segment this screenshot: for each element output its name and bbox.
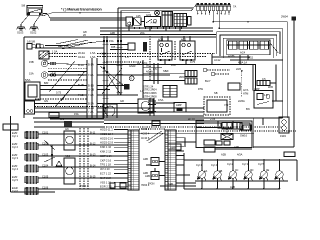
svg-text:04-0A: 04-0A (78, 55, 85, 59)
svg-text:1.5: 1.5 (264, 93, 268, 97)
svg-text:P/W: P/W (198, 87, 203, 91)
svg-text:B-11: B-11 (90, 131, 96, 135)
svg-text:AMP: AMP (170, 146, 176, 150)
svg-text:4/33: 4/33 (158, 38, 164, 42)
svg-text:Y/R: Y/R (224, 103, 228, 107)
svg-text:G-1B: G-1B (88, 88, 94, 92)
svg-text:0.75: 0.75 (190, 60, 196, 64)
svg-text:15A: 15A (74, 112, 79, 116)
svg-text:1.5A: 1.5A (90, 51, 96, 55)
svg-text:1.0: 1.0 (52, 71, 56, 75)
svg-text:10A: 10A (171, 63, 176, 67)
svg-text:1 5A: 1 5A (52, 50, 58, 54)
svg-text:A2B: A2B (168, 182, 173, 186)
svg-text:1.5A: 1.5A (90, 55, 96, 59)
svg-text:Cyl 3: Cyl 3 (12, 156, 18, 160)
svg-text:BN: BN (246, 107, 250, 111)
svg-text:2-06: 2-06 (210, 117, 216, 121)
svg-text:Cyl 4: Cyl 4 (12, 167, 18, 171)
svg-text:5/5A: 5/5A (25, 78, 31, 82)
svg-text:1.0: 1.0 (140, 89, 144, 93)
svg-text:AC10: AC10 (188, 117, 195, 121)
svg-text:GN: GN (44, 99, 48, 103)
svg-text:AC12: AC12 (214, 58, 221, 62)
svg-text:1/26: 1/26 (196, 125, 202, 129)
svg-text:Cyl 5: Cyl 5 (12, 178, 18, 182)
svg-text:B-1A: B-1A (88, 63, 94, 67)
svg-text:2/26A: 2/26A (238, 99, 245, 103)
svg-text:1/8 5/8: 1/8 5/8 (27, 40, 35, 44)
svg-text:C101: C101 (42, 131, 49, 135)
svg-text:AC86: AC86 (228, 54, 235, 58)
svg-text:15A: 15A (109, 39, 114, 43)
svg-text:C105: C105 (42, 175, 49, 179)
svg-text:1903: 1903 (280, 134, 286, 138)
svg-text:C104: C104 (42, 164, 49, 168)
svg-text:Cyl 3: Cyl 3 (242, 162, 248, 166)
svg-text:5/8: 5/8 (22, 4, 26, 8)
svg-text:4/3A: 4/3A (237, 153, 243, 157)
svg-text:4A: 4A (204, 169, 207, 173)
svg-text:7-1B: 7-1B (78, 93, 84, 97)
svg-text:B-1A: B-1A (78, 63, 84, 67)
svg-text:SB: SB (214, 91, 218, 95)
svg-text:C 2: C 2 (60, 117, 65, 121)
svg-text:HO2S-22 8: HO2S-22 8 (100, 141, 114, 145)
svg-text:20A: 20A (140, 31, 145, 35)
svg-text:4/33: 4/33 (146, 13, 152, 17)
svg-text:4/16A: 4/16A (146, 70, 153, 74)
svg-text:GR: GR (120, 99, 124, 103)
svg-text:CKP 2 16: CKP 2 16 (100, 158, 112, 162)
svg-text:4C: 4C (235, 168, 238, 172)
svg-text:SW16: SW16 (240, 134, 248, 138)
svg-text:0.75: 0.75 (56, 91, 62, 95)
svg-text:Cyl 6: Cyl 6 (12, 189, 18, 193)
svg-text:G103: G103 (17, 31, 24, 35)
svg-text:CMP 1 14: CMP 1 14 (100, 154, 112, 158)
svg-text:7-1A: 7-1A (88, 73, 94, 77)
svg-text:4/32: 4/32 (181, 38, 187, 42)
svg-text:B-15: B-15 (90, 175, 96, 179)
svg-text:STR4 2R08: STR4 2R08 (143, 94, 157, 98)
svg-text:TPS 1 18: TPS 1 18 (100, 163, 111, 167)
svg-text:A2B: A2B (230, 185, 235, 189)
svg-text:B-1B: B-1B (88, 84, 94, 88)
svg-text:ATM: ATM (243, 92, 248, 96)
svg-text:4C10 6: 4C10 6 (141, 136, 150, 140)
svg-text:R/B: R/B (111, 45, 116, 49)
svg-text:Cyl 1: Cyl 1 (12, 134, 18, 138)
svg-text:7-1B: 7-1B (88, 93, 94, 97)
svg-text:4/7A: 4/7A (243, 88, 249, 92)
svg-text:4E: 4E (266, 168, 269, 172)
svg-text:A4B: A4B (143, 171, 148, 175)
svg-text:2R04: 2R04 (179, 75, 186, 79)
svg-text:4/10: 4/10 (65, 154, 71, 158)
svg-text:HO2S-11 2: HO2S-11 2 (100, 128, 113, 132)
svg-text:15A: 15A (64, 44, 69, 48)
svg-text:Cyl 1: Cyl 1 (196, 163, 202, 167)
svg-text:AC4: AC4 (240, 51, 246, 55)
svg-text:AMP: AMP (176, 103, 182, 107)
svg-text:0.5A: 0.5A (158, 98, 164, 102)
svg-text:Cyl 2: Cyl 2 (12, 145, 18, 149)
svg-text:C103: C103 (42, 153, 49, 157)
svg-text:KNK 1 10: KNK 1 10 (100, 145, 112, 149)
svg-text:A 4/1: A 4/1 (151, 21, 157, 25)
svg-text:4/52: 4/52 (248, 56, 254, 60)
svg-text:ECT 1 22: ECT 1 22 (100, 172, 111, 176)
svg-text:4B: 4B (219, 169, 222, 173)
svg-text:B-12: B-12 (90, 142, 96, 146)
svg-text:15B: 15B (29, 60, 34, 64)
svg-text:MAF 2 24: MAF 2 24 (100, 176, 112, 180)
svg-text:G102: G102 (30, 31, 37, 35)
svg-text:GN/R: GN/R (129, 64, 136, 68)
svg-text:KNK 2 12: KNK 2 12 (100, 150, 112, 154)
svg-text:STR2 2R04: STR2 2R04 (143, 88, 157, 92)
svg-text:7A: 7A (233, 5, 236, 9)
svg-text:A22: A22 (101, 52, 106, 56)
svg-text:IAT 2 20: IAT 2 20 (100, 167, 110, 171)
svg-text:Cyl 4: Cyl 4 (211, 163, 217, 167)
svg-text:A2B: A2B (234, 145, 239, 149)
svg-text:B-13: B-13 (90, 153, 96, 157)
svg-text:K: K (131, 77, 133, 81)
svg-text:20-0A: 20-0A (78, 51, 85, 55)
svg-text:B-1B: B-1B (78, 83, 84, 87)
svg-text:2/26: 2/26 (236, 67, 242, 71)
svg-text:4D: 4D (250, 168, 253, 172)
svg-text:HO2S-12 4: HO2S-12 4 (100, 132, 114, 136)
svg-text:1.5: 1.5 (125, 55, 129, 59)
svg-text:Cyl 2: Cyl 2 (227, 162, 233, 166)
svg-text:W/R: W/R (268, 85, 273, 89)
svg-text:4/9: 4/9 (65, 127, 69, 131)
svg-text:A15: A15 (136, 14, 141, 18)
svg-text:Cyl 5: Cyl 5 (258, 162, 264, 166)
svg-text:AMP: AMP (254, 87, 260, 91)
svg-text:TR04 6: TR04 6 (80, 184, 89, 188)
svg-text:0.5: 0.5 (262, 77, 266, 81)
svg-text:A4B: A4B (110, 31, 115, 35)
svg-text:SB/F: SB/F (163, 69, 169, 73)
svg-text:4/8A 1A: 4/8A 1A (238, 61, 247, 65)
svg-text:P/GN: P/GN (148, 182, 154, 186)
svg-text:A2B: A2B (221, 153, 226, 157)
svg-text:B-14: B-14 (90, 164, 96, 168)
svg-text:A4B: A4B (143, 157, 148, 161)
svg-text:BL/Y: BL/Y (205, 79, 211, 83)
svg-text:* ( ) Manual transmission: * ( ) Manual transmission (61, 8, 103, 12)
svg-text:2W04: 2W04 (281, 15, 288, 19)
svg-text:B-2A: B-2A (88, 102, 94, 106)
svg-text:HO2S-21 6: HO2S-21 6 (100, 136, 114, 140)
svg-text:C106: C106 (42, 186, 49, 190)
svg-text:7-1A: 7-1A (78, 73, 84, 77)
svg-text:15A: 15A (29, 72, 34, 76)
svg-text:0.5: 0.5 (153, 67, 157, 71)
svg-text:5/16: 5/16 (146, 64, 152, 68)
svg-text:B/R: B/R (44, 81, 48, 85)
svg-text:0.5: 0.5 (44, 59, 48, 63)
svg-text:7-2A: 7-2A (88, 110, 94, 114)
